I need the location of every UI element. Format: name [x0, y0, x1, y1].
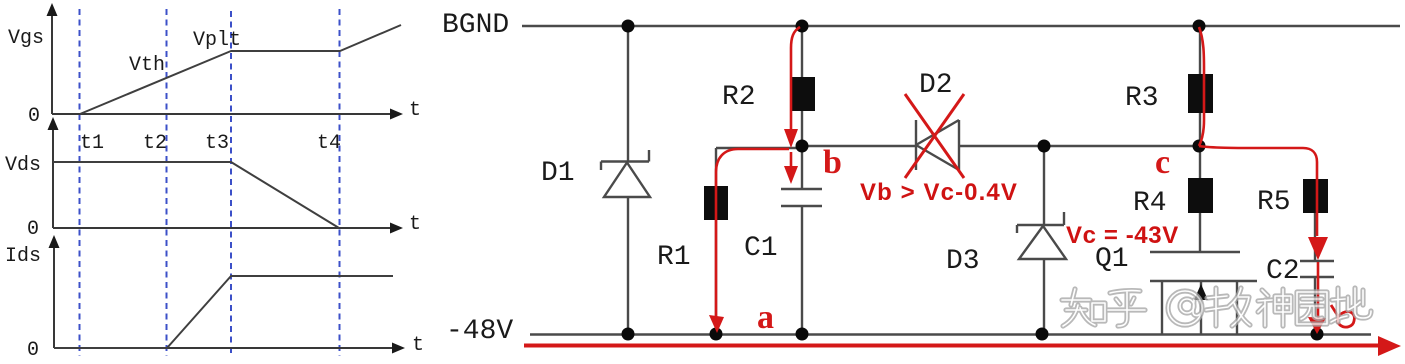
- svg-text:a: a: [757, 299, 774, 336]
- svg-text:0: 0: [28, 105, 40, 128]
- svg-text:t: t: [412, 334, 424, 357]
- svg-text:D3: D3: [946, 246, 980, 277]
- svg-text:Vb > Vc-0.4V: Vb > Vc-0.4V: [860, 179, 1018, 206]
- svg-text:t2: t2: [143, 132, 167, 155]
- svg-text:Vds: Vds: [5, 154, 41, 177]
- svg-text:t4: t4: [317, 132, 341, 155]
- svg-text:R4: R4: [1133, 188, 1167, 219]
- svg-text:b: b: [823, 144, 842, 181]
- svg-text:D2: D2: [919, 70, 953, 101]
- svg-text:R5: R5: [1257, 187, 1291, 218]
- svg-text:R3: R3: [1125, 83, 1159, 114]
- svg-text:Q1: Q1: [1095, 244, 1129, 275]
- svg-text:BGND: BGND: [442, 10, 509, 41]
- svg-text:C2: C2: [1266, 256, 1300, 287]
- svg-text:-48V: -48V: [446, 316, 513, 347]
- svg-text:D1: D1: [541, 158, 575, 189]
- svg-text:Vplt: Vplt: [193, 29, 241, 52]
- svg-text:0: 0: [27, 218, 39, 241]
- svg-text:t: t: [409, 213, 421, 236]
- svg-text:0: 0: [27, 339, 39, 362]
- svg-text:C1: C1: [744, 233, 778, 264]
- svg-text:c: c: [1155, 144, 1170, 181]
- svg-text:t: t: [409, 99, 421, 122]
- svg-text:Vth: Vth: [129, 54, 165, 77]
- svg-text:t3: t3: [205, 132, 229, 155]
- svg-text:R2: R2: [722, 82, 756, 113]
- svg-text:Ids: Ids: [5, 245, 41, 268]
- svg-text:t1: t1: [80, 132, 104, 155]
- svg-text:R1: R1: [657, 242, 691, 273]
- svg-text:Vgs: Vgs: [8, 27, 44, 50]
